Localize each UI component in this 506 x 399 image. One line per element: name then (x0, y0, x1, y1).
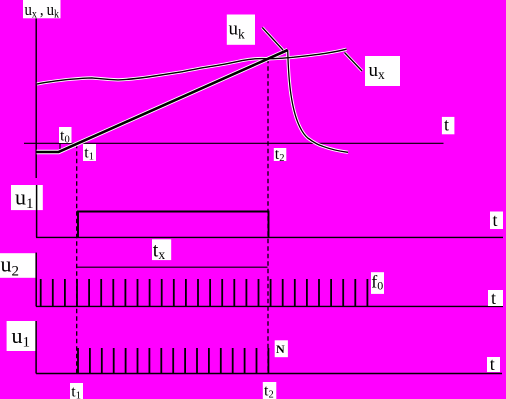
label box t plot4 (487, 357, 500, 372)
exponential decay (288, 50, 348, 152)
label box u_k (227, 15, 255, 45)
label box t plot2 (490, 212, 503, 230)
curve u_x (37, 49, 347, 84)
tick t0 (59, 143, 61, 152)
axis plot1 horizontal t (24, 142, 444, 144)
dashed line t1 (76, 144, 78, 374)
svg-text:t: t (490, 354, 495, 374)
pulse u1 (78, 212, 269, 238)
label box t2 bottom (263, 382, 277, 399)
comb N pulses (78, 348, 268, 374)
label box t_x (152, 239, 171, 260)
label box t0 (59, 127, 72, 143)
label box t2 top (274, 148, 287, 161)
leader u_k (262, 28, 283, 51)
label box f0 (371, 272, 384, 294)
label box t1 bottom (70, 383, 83, 399)
svg-text:N: N (276, 342, 285, 356)
label box t plot1 (442, 117, 455, 134)
ramp u_k (37, 50, 288, 152)
axis plot2 vertical (36, 185, 38, 237)
t_x interval line (77, 266, 268, 268)
axis plot3 vertical (35, 253, 37, 307)
svg-text:t: t (491, 288, 496, 308)
label box u_x,u_k (23, 0, 61, 18)
label box t plot3 (488, 290, 503, 306)
label box u2 (0, 253, 35, 278)
axis plot4 baseline (36, 373, 502, 375)
axis plot2 baseline (36, 236, 503, 238)
label box u_x (365, 56, 400, 86)
leader u_x (345, 53, 363, 72)
axis plot4 vertical (35, 321, 37, 374)
svg-text:t: t (493, 210, 498, 230)
curve casings group (37, 28, 363, 153)
label box u1 plot4 (7, 321, 36, 351)
label box N (275, 340, 288, 357)
label box t1 top (83, 144, 96, 161)
label box u1 plot2 (11, 185, 43, 210)
comb f0 pulses (41, 279, 368, 306)
axis plot1 vertical (35, 18, 37, 178)
svg-text:t: t (444, 114, 449, 134)
axis plot3 baseline (36, 305, 503, 307)
dashed line t2 (267, 59, 269, 374)
